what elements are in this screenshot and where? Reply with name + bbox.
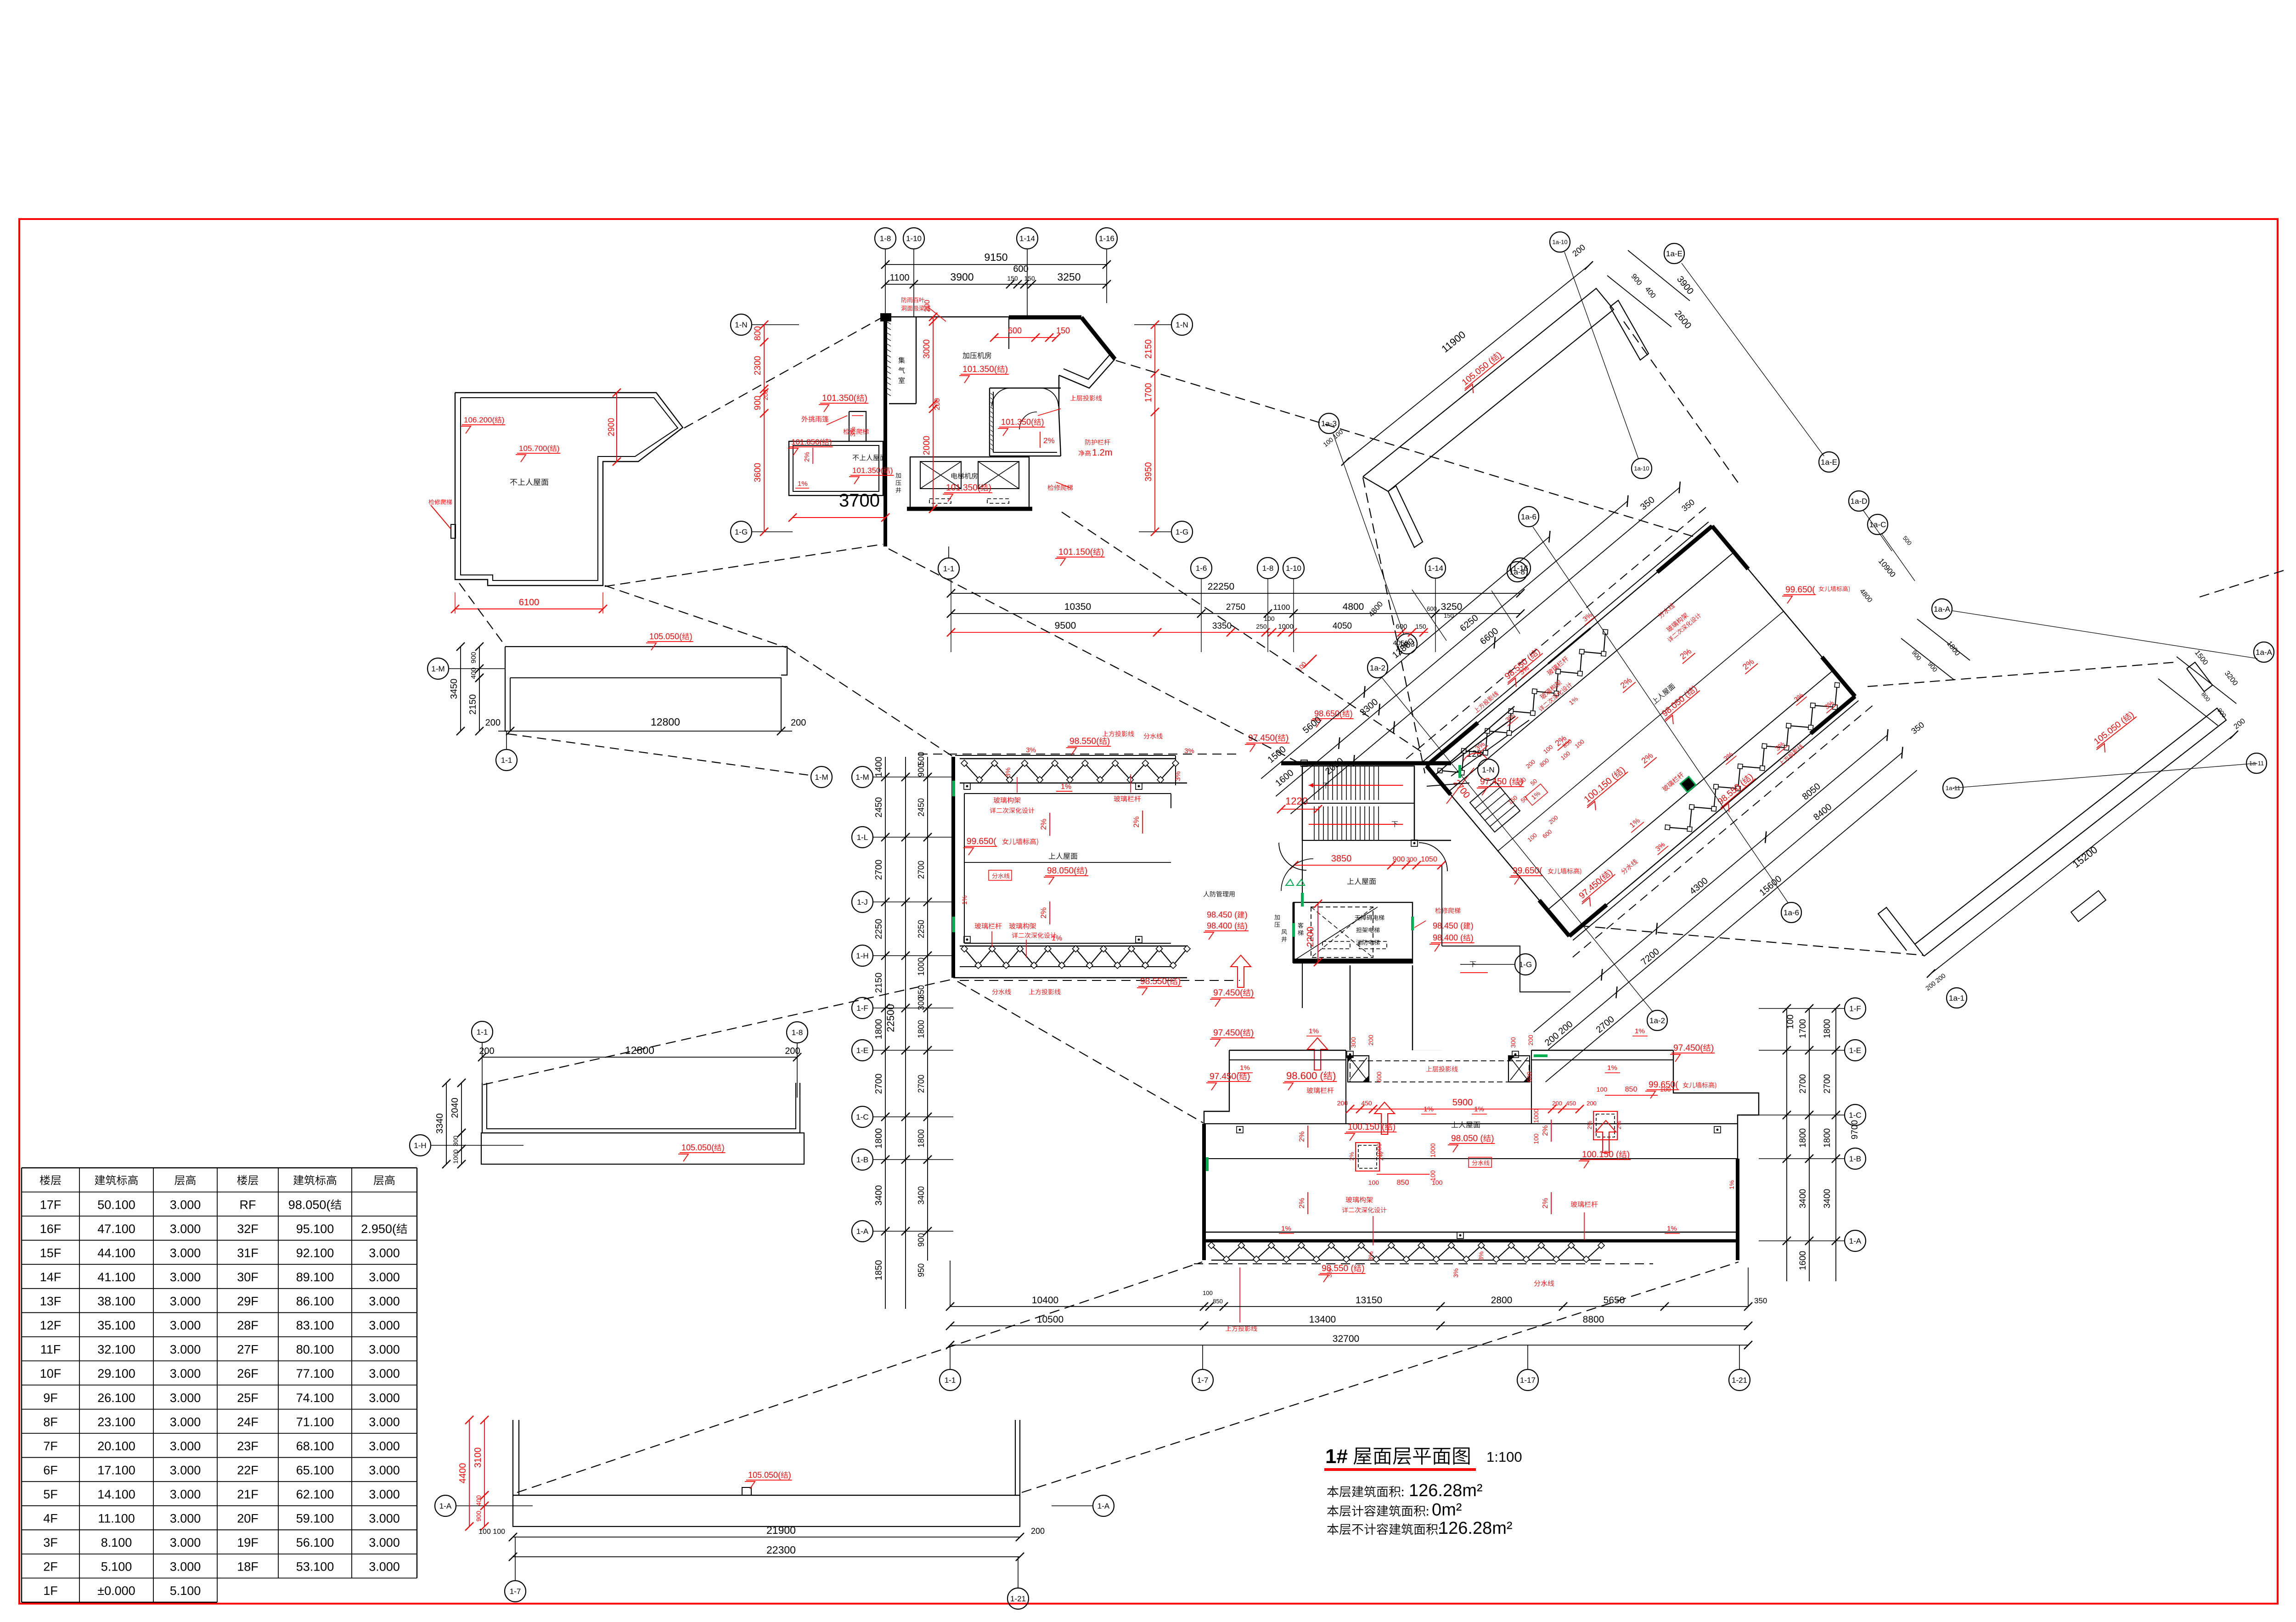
svg-text:10F: 10F xyxy=(40,1367,62,1380)
svg-text:): ) xyxy=(1491,1134,1494,1143)
svg-text:300: 300 xyxy=(452,1136,459,1147)
svg-text:89.100: 89.100 xyxy=(296,1270,334,1284)
svg-text:11.100: 11.100 xyxy=(98,1512,135,1526)
svg-text:74.100: 74.100 xyxy=(296,1391,334,1405)
svg-text:97.450(: 97.450( xyxy=(1210,1072,1239,1081)
svg-text:150: 150 xyxy=(1024,275,1035,282)
svg-text:1-16: 1-16 xyxy=(1099,234,1114,243)
svg-text:100: 100 xyxy=(1597,1086,1608,1093)
svg-text:100.150 (: 100.150 ( xyxy=(1348,1122,1385,1132)
svg-text:1000: 1000 xyxy=(1429,1143,1436,1157)
svg-text:200: 200 xyxy=(1337,1099,1348,1107)
svg-text:3.000: 3.000 xyxy=(369,1246,400,1260)
svg-text:2%: 2% xyxy=(1298,1131,1306,1142)
svg-text:13400: 13400 xyxy=(1309,1314,1336,1325)
svg-text:86.100: 86.100 xyxy=(296,1295,334,1308)
svg-text:2%: 2% xyxy=(1132,817,1141,828)
svg-text:38.100: 38.100 xyxy=(97,1295,135,1308)
svg-text:2040: 2040 xyxy=(450,1098,460,1118)
svg-text:3.000: 3.000 xyxy=(170,1391,201,1405)
svg-text:3.000: 3.000 xyxy=(170,1464,201,1477)
svg-text:56.100: 56.100 xyxy=(296,1536,334,1549)
svg-text:3450: 3450 xyxy=(449,679,459,699)
svg-text:200: 200 xyxy=(791,718,806,728)
svg-text:): ) xyxy=(1471,933,1474,942)
svg-text:1a-2: 1a-2 xyxy=(1649,1016,1665,1025)
svg-text:): ) xyxy=(1005,365,1008,374)
svg-text:1-E: 1-E xyxy=(1849,1046,1861,1055)
svg-text:): ) xyxy=(788,1470,791,1480)
svg-text:3600: 3600 xyxy=(753,463,763,482)
svg-text:1-8: 1-8 xyxy=(792,1028,803,1037)
svg-text:1400: 1400 xyxy=(874,757,884,777)
svg-text:35.100: 35.100 xyxy=(97,1318,135,1332)
svg-text:2150: 2150 xyxy=(468,694,478,715)
svg-text:150: 150 xyxy=(1007,275,1018,282)
svg-text:2%: 2% xyxy=(1542,1198,1549,1208)
svg-text:900: 900 xyxy=(917,1233,926,1247)
svg-text:99.650(: 99.650( xyxy=(1785,585,1815,595)
svg-text:2700: 2700 xyxy=(917,1075,926,1093)
svg-text:101.350(: 101.350( xyxy=(822,394,857,403)
svg-text:3400: 3400 xyxy=(917,1186,926,1205)
svg-text:1-14: 1-14 xyxy=(1019,234,1035,243)
svg-text:200: 200 xyxy=(479,1046,494,1056)
svg-text:13150: 13150 xyxy=(1356,1295,1382,1306)
far-right 15200 strip xyxy=(1915,708,2226,956)
svg-text:): ) xyxy=(1362,1264,1364,1273)
svg-text:2150: 2150 xyxy=(874,973,884,993)
svg-text:3.000: 3.000 xyxy=(170,1560,201,1574)
svg-text:44.100: 44.100 xyxy=(97,1246,135,1260)
svg-text:12800: 12800 xyxy=(625,1044,654,1056)
svg-text:98.600 (: 98.600 ( xyxy=(1286,1070,1323,1081)
svg-text:3%: 3% xyxy=(1184,747,1194,755)
svg-text:600: 600 xyxy=(1396,623,1407,631)
svg-text:1-J: 1-J xyxy=(857,898,868,907)
svg-text:8F: 8F xyxy=(43,1415,58,1429)
svg-text:100: 100 xyxy=(1660,1086,1671,1093)
svg-text:1-C: 1-C xyxy=(856,1113,868,1121)
svg-text:1800: 1800 xyxy=(874,1019,884,1040)
left axis circle column xyxy=(852,766,873,788)
svg-text:2450: 2450 xyxy=(917,798,926,817)
svg-text:): ) xyxy=(1471,921,1474,930)
svg-text:3.000: 3.000 xyxy=(369,1295,400,1308)
svg-text:98.450 (: 98.450 ( xyxy=(1433,921,1463,930)
svg-text:150: 150 xyxy=(1056,326,1070,335)
svg-text:32F: 32F xyxy=(237,1222,259,1236)
svg-text:): ) xyxy=(890,466,893,475)
svg-text:3.000: 3.000 xyxy=(170,1536,201,1549)
svg-text:2450: 2450 xyxy=(874,797,884,818)
left axis 1-N 1-G xyxy=(731,314,752,335)
svg-text:): ) xyxy=(1085,866,1087,876)
svg-text:98.050(: 98.050( xyxy=(288,1198,331,1211)
svg-text:20F: 20F xyxy=(237,1512,259,1526)
svg-text:300: 300 xyxy=(1350,1037,1357,1048)
svg-text:100: 100 xyxy=(1429,1170,1436,1181)
svg-text:98.450 (: 98.450 ( xyxy=(1207,910,1237,919)
svg-text:29F: 29F xyxy=(237,1295,259,1308)
svg-text:3.000: 3.000 xyxy=(369,1560,400,1574)
svg-text:): ) xyxy=(1286,733,1289,743)
svg-text:1800: 1800 xyxy=(917,1020,926,1038)
svg-text:2800: 2800 xyxy=(1491,1295,1513,1306)
svg-text:101.350(: 101.350( xyxy=(962,365,997,374)
svg-text:105.050(: 105.050( xyxy=(649,632,682,641)
machine room plan outline xyxy=(884,317,887,546)
svg-text:5.100: 5.100 xyxy=(101,1560,132,1574)
svg-text:2%: 2% xyxy=(1298,1198,1306,1208)
svg-text:): ) xyxy=(865,394,867,403)
svg-text:300: 300 xyxy=(1509,1037,1517,1048)
svg-text:1-1: 1-1 xyxy=(477,1028,488,1036)
svg-text:2%: 2% xyxy=(1043,436,1055,445)
svg-text:3250: 3250 xyxy=(1057,271,1080,283)
svg-text:100: 100 xyxy=(1264,615,1275,622)
svg-text:13F: 13F xyxy=(40,1295,62,1308)
svg-text:12800: 12800 xyxy=(651,716,680,728)
svg-text:22F: 22F xyxy=(237,1464,259,1477)
svg-text:1%: 1% xyxy=(1728,1180,1735,1189)
svg-text:1-A: 1-A xyxy=(856,1227,869,1236)
svg-text:7F: 7F xyxy=(43,1439,58,1453)
svg-text:3%: 3% xyxy=(1477,1251,1485,1261)
svg-text:1-F: 1-F xyxy=(1849,1004,1861,1013)
svg-text:2250: 2250 xyxy=(917,920,926,938)
svg-text:1-21: 1-21 xyxy=(1732,1376,1747,1385)
svg-text:3.000: 3.000 xyxy=(369,1464,400,1477)
svg-text:101.350(: 101.350( xyxy=(946,483,981,493)
svg-text:1-1: 1-1 xyxy=(501,756,512,765)
svg-text:1-A: 1-A xyxy=(1849,1237,1862,1245)
svg-text:): ) xyxy=(1251,1028,1254,1038)
svg-text:100: 100 xyxy=(1532,1133,1540,1144)
svg-text:3.000: 3.000 xyxy=(170,1198,201,1211)
svg-text:4800: 4800 xyxy=(1343,602,1364,612)
svg-text:1-N: 1-N xyxy=(1176,321,1188,329)
svg-text:101.150(: 101.150( xyxy=(1058,547,1093,557)
svg-text:1-10: 1-10 xyxy=(1286,564,1301,573)
svg-text:3.000: 3.000 xyxy=(369,1343,400,1357)
top-left roof plan 不上人屋面 xyxy=(455,393,683,586)
svg-text:9150: 9150 xyxy=(984,251,1007,263)
svg-text:2700: 2700 xyxy=(874,860,884,880)
svg-text:2%: 2% xyxy=(1039,907,1048,919)
svg-text:200: 200 xyxy=(1367,1035,1374,1046)
svg-text:24F: 24F xyxy=(237,1415,259,1429)
svg-text:1850: 1850 xyxy=(874,1260,884,1281)
svg-text:1-8: 1-8 xyxy=(880,234,891,243)
svg-text:1100: 1100 xyxy=(889,273,909,283)
svg-text:1-L: 1-L xyxy=(857,833,868,842)
right rotated roof plan xyxy=(1253,435,1925,1097)
svg-text:1-17: 1-17 xyxy=(1520,1376,1536,1385)
svg-text:20.100: 20.100 xyxy=(97,1439,135,1453)
svg-text:400: 400 xyxy=(475,1495,482,1506)
svg-text:1-N: 1-N xyxy=(1482,766,1494,774)
svg-text:400: 400 xyxy=(470,667,478,679)
svg-text:3000: 3000 xyxy=(922,339,932,359)
mid dimension chains 22250 xyxy=(1191,558,1212,579)
svg-text:1:100: 1:100 xyxy=(1486,1449,1522,1465)
svg-text:53.100: 53.100 xyxy=(296,1560,334,1574)
svg-text:98.050 (: 98.050 ( xyxy=(1451,1134,1483,1143)
svg-text:97.450(: 97.450( xyxy=(1213,1028,1243,1038)
svg-text:): ) xyxy=(1245,910,1248,919)
svg-text:65.100: 65.100 xyxy=(296,1464,334,1477)
svg-text:1a-10: 1a-10 xyxy=(1552,239,1567,246)
svg-text:83.100: 83.100 xyxy=(296,1318,334,1332)
svg-text:3%: 3% xyxy=(1174,771,1182,781)
svg-text:11F: 11F xyxy=(40,1343,61,1357)
svg-text:1-E: 1-E xyxy=(856,1046,868,1055)
svg-text:23F: 23F xyxy=(237,1439,259,1453)
svg-text:2700: 2700 xyxy=(917,861,926,879)
svg-text:1a-6: 1a-6 xyxy=(1521,513,1536,521)
svg-text:3.000: 3.000 xyxy=(170,1415,201,1429)
svg-text:1100: 1100 xyxy=(1273,603,1290,612)
svg-text:RF: RF xyxy=(240,1198,256,1211)
svg-text:900: 900 xyxy=(475,1511,482,1522)
svg-text:16F: 16F xyxy=(40,1222,62,1236)
svg-text:101.850(: 101.850( xyxy=(791,438,822,446)
svg-text:3.000: 3.000 xyxy=(369,1415,400,1429)
svg-text:1-A: 1-A xyxy=(439,1502,452,1510)
svg-text:3.000: 3.000 xyxy=(369,1536,400,1549)
svg-text:1%: 1% xyxy=(1061,783,1071,791)
svg-text:22500: 22500 xyxy=(885,1004,896,1032)
svg-text:450: 450 xyxy=(1361,1099,1372,1107)
svg-text:1a-E: 1a-E xyxy=(1666,249,1683,258)
svg-text:19F: 19F xyxy=(237,1536,259,1549)
svg-text:1%: 1% xyxy=(798,480,808,488)
svg-text:3.000: 3.000 xyxy=(170,1367,201,1380)
dashed projection lines xyxy=(517,1262,1202,1492)
svg-text:350: 350 xyxy=(1754,1296,1767,1305)
svg-text:3.000: 3.000 xyxy=(170,1295,201,1308)
svg-text:2750: 2750 xyxy=(1226,603,1245,612)
svg-text:97.450(: 97.450( xyxy=(1213,988,1243,998)
svg-text:1a-8: 1a-8 xyxy=(1509,568,1525,576)
svg-text:2%: 2% xyxy=(1348,1152,1355,1160)
svg-text:1-6: 1-6 xyxy=(1196,564,1207,573)
svg-text:1000: 1000 xyxy=(1375,1143,1383,1157)
svg-text:1800: 1800 xyxy=(1823,1019,1832,1038)
svg-text:1-B: 1-B xyxy=(856,1155,868,1164)
svg-text:±0.000: ±0.000 xyxy=(97,1584,135,1598)
svg-text:1800: 1800 xyxy=(1823,1128,1832,1148)
svg-text:1-M: 1-M xyxy=(815,773,828,782)
svg-text:23.100: 23.100 xyxy=(97,1415,135,1429)
svg-text:12F: 12F xyxy=(40,1318,62,1332)
svg-text:68.100: 68.100 xyxy=(296,1439,334,1453)
svg-text:1-8: 1-8 xyxy=(1262,564,1274,573)
svg-text:300: 300 xyxy=(1406,856,1417,863)
svg-text:3700: 3700 xyxy=(839,490,880,511)
svg-text:2300: 2300 xyxy=(753,356,763,375)
svg-text:28F: 28F xyxy=(237,1318,259,1332)
svg-text:2%: 2% xyxy=(1542,1125,1549,1136)
svg-text:99.650(: 99.650( xyxy=(967,837,996,846)
svg-text:1-M: 1-M xyxy=(855,773,869,782)
svg-text:3.000: 3.000 xyxy=(170,1512,201,1526)
svg-text:1800: 1800 xyxy=(917,1129,926,1148)
svg-text:25F: 25F xyxy=(237,1391,259,1405)
svg-text:1-7: 1-7 xyxy=(1197,1376,1209,1385)
svg-text:6F: 6F xyxy=(43,1464,58,1477)
svg-text:18F: 18F xyxy=(237,1560,259,1574)
svg-text:3400: 3400 xyxy=(874,1185,884,1206)
svg-text:15F: 15F xyxy=(40,1246,62,1260)
svg-text:1a-D: 1a-D xyxy=(1851,497,1868,506)
svg-text:97.450 (: 97.450 ( xyxy=(1480,777,1512,787)
svg-text:200: 200 xyxy=(1031,1526,1045,1536)
svg-text:21900: 21900 xyxy=(766,1524,796,1536)
svg-text:3%: 3% xyxy=(1026,746,1036,754)
svg-text:95.100: 95.100 xyxy=(296,1222,334,1236)
svg-text:2900: 2900 xyxy=(607,418,616,436)
svg-text:1a-A: 1a-A xyxy=(1934,605,1951,614)
svg-text:3.000: 3.000 xyxy=(369,1512,400,1526)
svg-text:1.2m: 1.2m xyxy=(1092,448,1112,458)
svg-text:17.100: 17.100 xyxy=(97,1464,135,1477)
svg-text:1a-A: 1a-A xyxy=(2256,648,2273,657)
svg-text:126.28m²: 126.28m² xyxy=(1409,1481,1483,1500)
svg-text:41.100: 41.100 xyxy=(97,1270,135,1284)
svg-text:1-1: 1-1 xyxy=(943,564,955,573)
svg-text:3.000: 3.000 xyxy=(369,1318,400,1332)
svg-text:): ) xyxy=(1178,977,1181,986)
svg-text:100: 100 xyxy=(1368,1179,1379,1186)
svg-text:200: 200 xyxy=(762,389,769,400)
svg-text:22250: 22250 xyxy=(1208,581,1234,592)
svg-text:31F: 31F xyxy=(237,1246,259,1260)
svg-text:3900: 3900 xyxy=(950,271,974,283)
svg-text:3%: 3% xyxy=(1452,1268,1459,1278)
svg-text:1000: 1000 xyxy=(917,957,926,976)
svg-text:3F: 3F xyxy=(43,1536,58,1549)
svg-text:1-14: 1-14 xyxy=(1428,564,1443,573)
svg-text:22300: 22300 xyxy=(766,1544,796,1556)
svg-text:1%: 1% xyxy=(1667,1225,1677,1233)
svg-text:3.000: 3.000 xyxy=(170,1439,201,1453)
svg-text:2.950(: 2.950( xyxy=(361,1222,396,1236)
svg-text:3.000: 3.000 xyxy=(170,1270,201,1284)
svg-text:3.000: 3.000 xyxy=(170,1222,201,1236)
svg-text:77.100: 77.100 xyxy=(296,1367,334,1380)
elevation strip 12800 upper xyxy=(505,647,787,675)
svg-text:1a-10: 1a-10 xyxy=(1634,465,1649,472)
svg-text:9F: 9F xyxy=(43,1391,58,1405)
svg-text:): ) xyxy=(502,416,505,424)
svg-text:26.100: 26.100 xyxy=(97,1391,135,1405)
bottom elevation strip 21900 xyxy=(513,1420,519,1495)
svg-text:5F: 5F xyxy=(43,1487,58,1501)
svg-text:2%: 2% xyxy=(1615,1121,1622,1129)
svg-text:3.000: 3.000 xyxy=(170,1318,201,1332)
svg-text:1a-6: 1a-6 xyxy=(1784,908,1799,917)
svg-text:98.400 (: 98.400 ( xyxy=(1433,933,1463,942)
svg-text:1-C: 1-C xyxy=(1849,1111,1861,1120)
svg-text:250: 250 xyxy=(1256,623,1267,630)
svg-text:1a-2: 1a-2 xyxy=(1370,664,1385,672)
svg-text:80.100: 80.100 xyxy=(296,1343,334,1357)
svg-text:1F: 1F xyxy=(43,1584,58,1598)
svg-text:3.000: 3.000 xyxy=(170,1487,201,1501)
svg-text:900: 900 xyxy=(470,652,478,663)
svg-text:1%: 1% xyxy=(961,895,968,905)
svg-text:3250: 3250 xyxy=(1441,602,1463,612)
svg-text:27F: 27F xyxy=(237,1343,259,1357)
bottom-center roof plan xyxy=(1204,1050,1229,1260)
svg-text:98.550(: 98.550( xyxy=(1069,737,1099,746)
svg-text:): ) xyxy=(1101,547,1104,557)
svg-text:600: 600 xyxy=(1013,264,1028,274)
svg-text:200: 200 xyxy=(1527,1035,1534,1046)
svg-text:47.100: 47.100 xyxy=(97,1222,135,1236)
svg-text:100: 100 xyxy=(1786,1014,1795,1029)
svg-text:1-A: 1-A xyxy=(1097,1502,1110,1510)
svg-text:1-M: 1-M xyxy=(431,665,445,673)
svg-text:3%: 3% xyxy=(1004,767,1012,777)
svg-text:3350: 3350 xyxy=(1212,621,1232,631)
svg-text:): ) xyxy=(1333,1070,1336,1081)
svg-text:): ) xyxy=(1627,1150,1630,1160)
svg-text:10400: 10400 xyxy=(1032,1295,1058,1306)
svg-text:1%: 1% xyxy=(1052,935,1062,942)
svg-text:1800: 1800 xyxy=(1798,1128,1808,1148)
svg-text:1%: 1% xyxy=(1309,1027,1319,1035)
svg-text:600: 600 xyxy=(1375,1071,1383,1082)
svg-text:1%: 1% xyxy=(1240,1064,1250,1072)
svg-text:3.000: 3.000 xyxy=(369,1367,400,1380)
svg-text:2700: 2700 xyxy=(1823,1074,1832,1093)
svg-text:850: 850 xyxy=(1213,1298,1223,1305)
svg-text:3400: 3400 xyxy=(1823,1189,1832,1208)
svg-text:1%: 1% xyxy=(1607,1064,1617,1072)
svg-text:1000: 1000 xyxy=(1532,1109,1540,1123)
svg-text:2%: 2% xyxy=(1039,819,1048,830)
svg-text:2F: 2F xyxy=(43,1560,58,1574)
svg-text:3850: 3850 xyxy=(1331,854,1352,864)
svg-text:3.000: 3.000 xyxy=(170,1343,201,1357)
svg-text:10350: 10350 xyxy=(1064,602,1091,612)
svg-text:1-B: 1-B xyxy=(1849,1155,1861,1163)
svg-text:200: 200 xyxy=(1587,1100,1597,1107)
svg-text:106.200(: 106.200( xyxy=(464,416,495,424)
svg-text:1050: 1050 xyxy=(1421,856,1437,863)
svg-text:100: 100 xyxy=(1203,1290,1213,1296)
svg-text:50.100: 50.100 xyxy=(97,1198,135,1211)
svg-text:850: 850 xyxy=(1625,1086,1638,1093)
svg-text:1-G: 1-G xyxy=(735,528,748,536)
svg-text:1-H: 1-H xyxy=(856,952,868,960)
svg-text:2250: 2250 xyxy=(874,919,884,940)
svg-text:): ) xyxy=(829,438,832,446)
svg-text:1a-E: 1a-E xyxy=(1821,458,1837,467)
svg-text:): ) xyxy=(1711,1043,1714,1053)
svg-text:4050: 4050 xyxy=(1393,639,1408,647)
svg-text:4050: 4050 xyxy=(1333,621,1352,631)
svg-text:900: 900 xyxy=(753,396,763,411)
svg-text:5.100: 5.100 xyxy=(170,1584,201,1598)
svg-text:105.700(: 105.700( xyxy=(519,444,550,453)
svg-text:150: 150 xyxy=(1444,612,1454,619)
svg-text:3100: 3100 xyxy=(473,1447,483,1468)
svg-text:): ) xyxy=(1393,1122,1396,1132)
